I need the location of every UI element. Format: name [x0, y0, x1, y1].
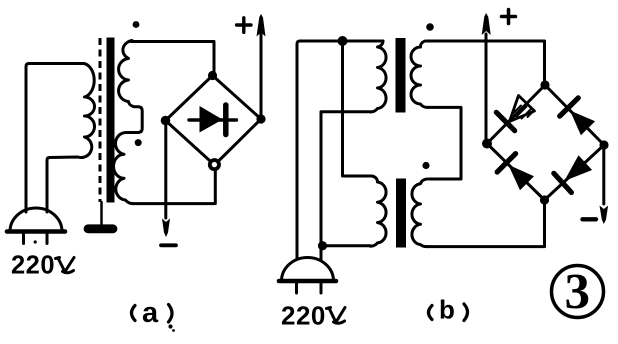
- label + (b): [502, 15, 516, 19]
- wire: lower primary bottom to inner lead (b): [323, 244, 371, 247]
- transformer T2 lower secondary winding (b): [412, 179, 427, 247]
- diode D2 top-left (outline hatched) (b): [496, 96, 534, 131]
- node: bridge bottom (b): [540, 195, 549, 204]
- polarity dot (a) secondary top: [133, 21, 140, 28]
- node: bridge left (b): [482, 139, 492, 149]
- wire: upper secondary top to bridge top (b): [427, 41, 545, 81]
- label - (b): [583, 217, 597, 221]
- label - (a): [161, 243, 176, 247]
- bridge rectifier block (a): [166, 76, 262, 166]
- transformer T2 upper primary winding (b): [371, 41, 387, 112]
- wire + output arrow (a): [260, 34, 263, 119]
- diode D5 bottom-right (b): [554, 155, 592, 192]
- transformer T1 primary winding (a): [47, 64, 95, 213]
- node: top junction (b): [338, 36, 348, 46]
- svg-text:220: 220: [281, 301, 326, 331]
- wire + output arrow (b): [485, 34, 488, 144]
- diode D4 bottom-left (b): [497, 154, 534, 191]
- node: bridge top (a): [208, 71, 217, 80]
- transformer T2 upper core (b): [396, 38, 406, 113]
- wire: parallel link from top node to lower primary top (b): [343, 41, 371, 176]
- wire: plug left lead to primary top (a): [26, 64, 84, 213]
- wire - output arrow (a): [164, 121, 167, 219]
- node: bridge left (a): [161, 116, 171, 126]
- value label 220V (b): [281, 301, 326, 331]
- wire - output arrow (b): [602, 145, 605, 204]
- label + (a): [237, 23, 251, 26]
- polarity dot (b) lower: [422, 162, 429, 169]
- transformer T2 lower primary winding (b): [371, 176, 387, 246]
- node: bottom junction (b): [318, 241, 327, 250]
- transformer T2 lower core (b): [396, 179, 406, 248]
- bridge diamond (b): [487, 85, 604, 200]
- value label 220V (a): [11, 252, 55, 280]
- transformer T2 upper secondary winding (b): [411, 41, 427, 107]
- wire: lower secondary bottom to bridge bottom (b): [427, 204, 545, 247]
- wire: series jog between secondaries (b): [427, 107, 461, 179]
- label (b): [429, 304, 468, 321]
- node: bridge right (a): [256, 114, 265, 123]
- transformer T1 secondary winding with jog (a): [114, 41, 143, 204]
- svg-text:3: 3: [565, 265, 591, 321]
- wire: plug inner lead to upper primary bottom (b): [321, 112, 371, 259]
- wire: secondary bottom to bridge (a): [133, 170, 215, 203]
- node: bridge top (b): [540, 80, 549, 89]
- plug P1 (a): [7, 208, 65, 244]
- wire: secondary top to bridge (a): [131, 42, 214, 75]
- plug P2 (b): [279, 257, 336, 293]
- diode D3 top-right (b): [560, 98, 595, 135]
- transformer T1 core (a): [99, 38, 102, 202]
- svg-text:b: b: [439, 295, 455, 325]
- figure number 3 in circle: [552, 266, 604, 318]
- svg-text:220: 220: [11, 252, 55, 280]
- polarity dot (b) upper: [426, 23, 434, 31]
- node: bridge right (b): [599, 140, 608, 149]
- wire: plug outer lead to primary top (b): [297, 41, 383, 259]
- label (a): [132, 305, 173, 323]
- node: bridge bottom open terminal (a): [210, 160, 219, 169]
- polarity dot (a) secondary mid: [135, 139, 142, 146]
- diode D1 inside bridge (a): [189, 118, 237, 121]
- ground / chassis symbol (a): [100, 202, 103, 226]
- svg-text:a: a: [142, 297, 159, 329]
